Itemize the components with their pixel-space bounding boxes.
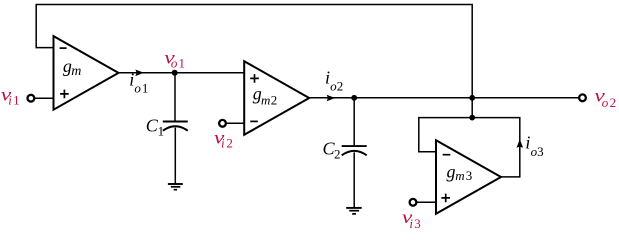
svg-text:2: 2	[334, 147, 341, 162]
svg-text:3: 3	[414, 216, 421, 231]
svg-text:2: 2	[226, 136, 233, 151]
svg-text:i: i	[221, 136, 225, 151]
svg-text:m: m	[71, 64, 81, 79]
svg-text:1: 1	[179, 56, 186, 71]
svg-text:i: i	[8, 93, 12, 108]
svg-text:i: i	[409, 216, 413, 231]
svg-text:3: 3	[466, 168, 473, 183]
svg-text:2: 2	[337, 79, 344, 94]
svg-text:1: 1	[142, 80, 149, 95]
svg-text:2: 2	[271, 92, 278, 107]
svg-text:m: m	[261, 92, 270, 107]
svg-text:1: 1	[158, 124, 165, 139]
svg-text:1: 1	[13, 93, 20, 108]
svg-text:o: o	[602, 95, 609, 110]
svg-text:g: g	[447, 162, 456, 182]
svg-text:o: o	[134, 80, 141, 95]
svg-text:2: 2	[610, 95, 617, 110]
svg-text:o: o	[171, 56, 178, 71]
svg-text:m: m	[455, 168, 464, 183]
svg-text:3: 3	[537, 144, 544, 159]
